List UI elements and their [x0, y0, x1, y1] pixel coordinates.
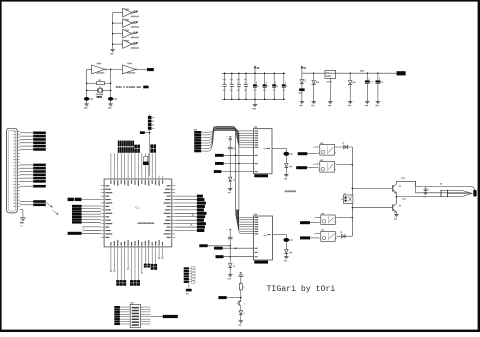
crystal Y1 small box	[143, 156, 148, 165]
capacitor C2	[108, 97, 117, 104]
node ECLK label	[147, 68, 154, 71]
wire MCU bottom pins group B	[132, 250, 139, 280]
node label block B	[130, 280, 140, 286]
wire	[20, 201, 33, 203]
relay RY1	[318, 143, 336, 156]
wire ROM2 VPP	[273, 234, 287, 237]
node CE1 label wire	[215, 154, 254, 157]
wire IRQ	[83, 229, 101, 231]
crystal X1	[86, 86, 112, 97]
wire input gate C	[112, 22, 123, 24]
wire RY1 to bus	[336, 146, 352, 148]
diode D10	[239, 311, 244, 321]
wire	[20, 180, 33, 182]
wire PD1 stub	[113, 250, 115, 272]
ground	[348, 102, 353, 107]
ground	[311, 102, 316, 107]
wire PB5 stub	[127, 250, 129, 269]
wire MCU bottom pins group A	[118, 250, 125, 280]
connector P1 tip	[473, 190, 476, 197]
node label cluster mode pins	[134, 145, 140, 153]
wire input gate E	[112, 43, 123, 45]
capacitor C21 electrolytic	[283, 238, 292, 250]
capacitor C12 bypass	[237, 73, 241, 101]
relay RY4	[319, 229, 336, 241]
node OE2 label wire	[216, 255, 254, 258]
svg-text:TIGari by tOri: TIGari by tOri	[267, 284, 336, 294]
capacitor C10 bypass	[223, 73, 227, 101]
node ACC	[360, 70, 363, 71]
wire serial line	[149, 130, 151, 175]
capacitor C16 electrolytic	[272, 73, 278, 101]
node VRH VRL labels	[68, 198, 101, 201]
ground	[423, 193, 427, 198]
wire XIRQ	[83, 226, 101, 228]
node control label	[33, 200, 46, 203]
label gate B	[124, 9, 139, 18]
wire bus down to ROM2	[236, 133, 254, 234]
wire	[20, 145, 33, 147]
wire feedback left	[87, 69, 92, 97]
wire clock output	[137, 68, 147, 70]
node CN5 gnd label	[186, 289, 192, 294]
node PON STBY text	[285, 190, 296, 192]
wire input gate B	[113, 12, 123, 14]
wire input bus for spare gates	[112, 13, 114, 49]
capacitor C14 electrolytic	[253, 73, 259, 101]
relay RY2	[318, 160, 336, 173]
inverter IC1B	[123, 8, 137, 17]
svg-text:IC2: IC2	[135, 206, 140, 210]
wire	[20, 164, 33, 166]
pin header J1	[118, 141, 134, 153]
wire	[20, 185, 33, 187]
wire PD0 stub	[110, 250, 112, 272]
node RL text	[401, 177, 405, 178]
wire between inverters	[106, 69, 122, 71]
node SW3 label wire	[300, 221, 319, 224]
node RESET label	[68, 232, 101, 235]
ground	[228, 188, 233, 193]
node data bit label	[33, 138, 46, 141]
EPROM IC5 body	[254, 214, 273, 260]
connector CN1 pin stubs	[17, 132, 20, 207]
label gate D	[124, 30, 139, 39]
ground	[365, 102, 370, 107]
wire MCU bottom pins group C	[145, 250, 148, 263]
node SW2 label wire	[296, 166, 318, 169]
node status bit label	[33, 164, 46, 167]
wire Q1 base	[352, 188, 393, 190]
diode D8	[342, 142, 347, 149]
node data bit label	[33, 145, 46, 148]
node RESET wire tap	[199, 244, 231, 247]
ground	[284, 257, 289, 262]
microcontroller IC2 pin names	[105, 180, 170, 246]
capacitor C17 electrolytic	[282, 73, 288, 101]
capacitor C11 bypass	[230, 73, 234, 101]
node CE2 label wire	[214, 247, 254, 250]
node status bit label	[33, 174, 46, 177]
wire tick RW	[190, 224, 192, 226]
wire ROM1 VPP	[272, 148, 286, 151]
node VCC label box	[397, 71, 406, 75]
wire	[20, 142, 33, 144]
wire RY3 to bus	[337, 217, 353, 219]
wire input gate D	[112, 33, 123, 35]
inverter IC1D	[123, 29, 137, 38]
wire RY4 to bus	[337, 235, 353, 237]
wire PB1 stub	[141, 250, 143, 273]
wire RY1 coil plus	[313, 147, 318, 148]
ground	[108, 104, 113, 109]
node data bit label	[33, 141, 46, 144]
zener diode D4	[285, 164, 293, 175]
node label block A	[116, 280, 126, 286]
wire PA stub 2	[161, 250, 163, 259]
capacitor C6 electrolytic	[376, 72, 384, 101]
microcontroller IC2 body	[104, 179, 172, 247]
ground	[110, 50, 115, 55]
node port D label stack	[72, 205, 101, 224]
wire	[20, 204, 33, 206]
ground	[20, 218, 26, 227]
connector CN3 body	[130, 302, 140, 327]
wire to ground	[20, 210, 23, 218]
capacitor C20 electrolytic	[283, 152, 292, 164]
ground	[328, 102, 333, 107]
node RxD label	[140, 131, 151, 134]
node LED net label	[299, 88, 305, 101]
node audio out label	[163, 315, 178, 318]
wire VCC rail	[222, 72, 285, 74]
wire bus CN2 to ROM1	[204, 126, 254, 151]
node RES label wire	[218, 296, 241, 299]
inverter IC1A	[92, 63, 107, 74]
capacitor C17	[239, 273, 245, 284]
wire arrow out 1	[46, 203, 52, 208]
wire	[20, 148, 33, 150]
wire arrow out 2	[53, 210, 59, 215]
zener diode D5	[285, 250, 293, 257]
ground	[238, 321, 243, 326]
transistor Q2	[393, 197, 401, 215]
node SW1 label wire	[298, 152, 319, 155]
wire to ground	[254, 99, 256, 104]
wire	[20, 177, 33, 179]
wire	[20, 138, 33, 140]
zener diode D6	[228, 177, 234, 188]
diode D9	[340, 232, 345, 239]
capacitor C16	[227, 229, 233, 263]
wire emitter line to plug	[396, 196, 441, 198]
connector CN3 labels	[114, 306, 130, 325]
wire	[20, 171, 33, 173]
microcontroller IC2 pin stubs	[101, 176, 176, 251]
node data bit label	[33, 132, 46, 135]
node 5V supply arrow	[254, 65, 259, 73]
wire RY2 coil plus	[313, 164, 318, 165]
node OE1 label wire	[215, 162, 254, 165]
connector P1 plug body	[440, 183, 472, 197]
node label block C	[144, 264, 150, 268]
node status bit label	[33, 180, 46, 183]
connector CN5	[184, 267, 195, 284]
note oscillator frequency	[116, 86, 149, 89]
node VB+ arrow	[301, 65, 306, 73]
ground	[284, 175, 289, 180]
wire MCU bottom pins group D	[152, 250, 155, 263]
wire collector rail to plug sleeve	[396, 181, 471, 193]
ground	[300, 102, 305, 107]
wire	[20, 132, 33, 134]
wire RY4 coil plus	[314, 233, 319, 234]
capacitor C22	[424, 187, 429, 193]
node LED text	[402, 198, 405, 199]
wire VB rail	[302, 72, 397, 74]
resistor R2	[239, 284, 244, 302]
node data bit label	[33, 135, 46, 138]
capacitor C9	[228, 147, 235, 177]
capacitor C1	[84, 97, 93, 104]
wire CN5 ground	[188, 283, 190, 289]
wire tick AS	[192, 214, 194, 216]
zener diode D3	[348, 72, 355, 101]
wire	[20, 174, 33, 176]
node data bit label	[33, 148, 46, 151]
capacitor C8	[227, 136, 232, 147]
inverter IC1C	[123, 19, 137, 28]
transistor Q1	[393, 181, 401, 196]
wire MCU top pins to header	[111, 153, 156, 175]
transistor Q3	[237, 300, 245, 310]
ground	[253, 105, 258, 110]
regulator IC3 78L05	[325, 70, 336, 101]
note caption TIGari by tOri	[267, 284, 336, 294]
node ROM2 part label	[254, 261, 268, 264]
wire PA stub	[158, 250, 160, 259]
capacitor C5 electrolytic	[365, 72, 373, 101]
node status bit label	[33, 170, 46, 173]
zener diode D7	[228, 264, 234, 275]
wire to audio label	[151, 315, 163, 317]
zener diode D2	[312, 72, 319, 101]
EPROM IC4 body	[254, 126, 273, 173]
node strobe label	[33, 185, 46, 188]
inverter IC1F	[122, 63, 137, 74]
wire GND rail	[222, 98, 285, 100]
wire RY3 coil plus	[314, 217, 319, 218]
node label cluster port pins	[150, 144, 156, 152]
connector CN3 right wires	[140, 307, 150, 324]
ground	[376, 102, 381, 107]
wire top conductor	[416, 181, 475, 190]
node control label	[33, 204, 46, 207]
wire	[20, 167, 33, 169]
connector CN1 body	[7, 128, 18, 213]
label gate E	[124, 40, 139, 49]
wire Q2 base	[352, 207, 393, 209]
ground	[394, 215, 399, 220]
inverter IC1E	[123, 40, 137, 49]
node status bit label	[33, 177, 46, 180]
node status bit label	[33, 167, 46, 170]
node label block D	[151, 264, 157, 270]
node A15 label wire	[214, 170, 254, 173]
wire feedback right	[110, 69, 112, 97]
photocoupler K1 box	[341, 193, 353, 203]
capacitor C13 bypass	[244, 73, 248, 101]
label gate C	[124, 19, 139, 28]
wire RY2 to bus	[336, 164, 353, 166]
node ROM1 part label	[254, 174, 268, 177]
wire common bus vertical	[351, 147, 353, 236]
relay RY3	[319, 213, 336, 225]
ground	[84, 104, 89, 109]
LED D1 power indicator	[300, 73, 307, 88]
capacitor C15 electrolytic	[263, 73, 269, 101]
resistor R1	[86, 79, 112, 84]
node SW4 label wire	[300, 236, 319, 239]
connector CN4 serial	[148, 114, 154, 130]
node address label column	[175, 195, 206, 232]
wire	[20, 135, 33, 137]
ground	[228, 275, 233, 280]
connector CN2	[194, 129, 204, 152]
